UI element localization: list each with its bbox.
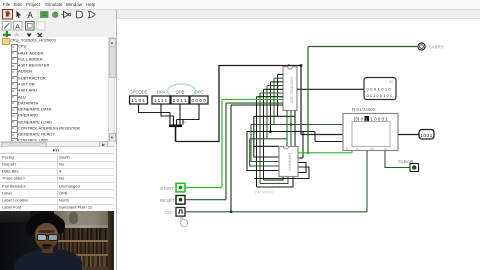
svg-text:0001010: 0001010 — [367, 86, 393, 91]
wire OPCODE pin to splitter — [139, 104, 171, 125]
wire register output — [398, 133, 419, 135]
input pin RESET value 0 — [160, 195, 185, 204]
clock CLK — [165, 207, 186, 216]
wire datapath right hook 3 — [254, 167, 309, 179]
wire datapath right hook 2 — [283, 162, 306, 176]
svg-text:1 0 0 0 1: 1 0 0 0 1 — [371, 116, 389, 121]
bus wire splitter trunk — [175, 127, 177, 142]
wire wrap under datapath 1 — [264, 176, 284, 180]
svg-text:00: 00 — [389, 80, 393, 84]
wire control unit bottom pin 1 to datapath top — [286, 110, 288, 146]
svg-text:1101: 1101 — [131, 98, 146, 104]
wire bundle horizontal b3 — [247, 130, 315, 132]
probe display D1 binary value — [364, 77, 396, 99]
wire bundle horizontal b1 — [254, 115, 295, 117]
mouse cursor ghost — [180, 217, 188, 226]
wire control unit input 1 staircase — [278, 74, 284, 116]
wire riser to datapath input 4 — [247, 131, 279, 170]
wire control unit output to probe display — [297, 88, 364, 90]
svg-text:OPC: OPC — [194, 89, 203, 94]
wire control unit input 7 staircase — [257, 96, 284, 186]
wire riser to datapath input 3 — [250, 138, 279, 165]
svg-text:01100101: 01100101 — [367, 93, 394, 98]
svg-text:(0) 0: (0) 0 — [354, 116, 364, 121]
svg-text:clk: clk — [370, 146, 374, 150]
input pin START value 1 — [160, 183, 185, 192]
wire datapath to register load (green) — [298, 150, 352, 152]
wire bundle horizontal b4 — [250, 137, 287, 139]
wire START net to control unit — [222, 99, 283, 187]
wire OPA pin to splitter — [161, 104, 174, 125]
wire CLK net riser to control unit — [231, 105, 283, 212]
wire control unit input 5 staircase — [264, 89, 284, 180]
svg-text:0011: 0011 — [173, 98, 188, 104]
input pin OPCODE value 1101 — [129, 89, 147, 104]
wire bundle horizontal b5 — [254, 145, 279, 147]
wire CLEAR button to register — [385, 150, 410, 167]
wire bundle horizontal b2 to register — [251, 123, 343, 125]
junction on b3 — [269, 130, 272, 133]
svg-text:CONTROL UNIT: CONTROL UNIT — [290, 77, 294, 105]
register R1 — [343, 113, 398, 150]
junction on CLK wire — [230, 210, 233, 213]
wire wrap under datapath 2 — [260, 176, 288, 183]
svg-text:CARRY: CARRY — [429, 44, 444, 49]
svg-text:RESET: RESET — [160, 198, 175, 203]
wire riser to datapath input 2 — [251, 124, 279, 161]
wire wrap under datapath 3 — [257, 176, 294, 187]
junction at bus corner — [300, 64, 303, 67]
svg-text:R 01/24002: R 01/24002 — [352, 107, 376, 112]
wire OPB pin to splitter — [179, 104, 181, 125]
svg-text:A: A — [28, 11, 34, 20]
wire CARRY net — [308, 46, 417, 152]
wire START pin — [185, 186, 222, 188]
wire datapath right hook 1 — [298, 131, 303, 158]
input pin OPB value 0011 — [171, 89, 189, 104]
wire control unit top pin stub — [288, 64, 290, 66]
splitter S1 4-bit merge — [169, 119, 187, 127]
junction green wire — [307, 151, 310, 154]
subcircuit U2 DATAPATH — [279, 146, 298, 176]
svg-text:clr: clr — [384, 146, 387, 150]
junction on b2 — [290, 123, 293, 126]
wire control unit input 3 staircase — [271, 81, 284, 131]
svg-text:A: A — [15, 24, 20, 31]
svg-text:START: START — [160, 185, 174, 190]
input pin OPC value 0000 — [190, 89, 208, 104]
bus wire riser to register input — [301, 65, 343, 134]
wire control unit bottom pin 3 to datapath top — [294, 110, 296, 146]
wire control unit bottom pin 2 to datapath top — [290, 110, 292, 146]
wire control unit input 2 staircase — [274, 78, 283, 124]
svg-text:4: 4 — [184, 119, 187, 124]
wire control unit input 6 staircase — [260, 93, 283, 184]
output display value 1001 — [419, 129, 434, 139]
svg-text:ld: ld — [346, 146, 349, 150]
svg-text:CLK: CLK — [165, 209, 174, 214]
wire control unit input 4 staircase — [267, 85, 283, 138]
svg-text:DATAPATH: DATAPATH — [288, 152, 292, 171]
wire CLK to register clock — [185, 150, 367, 211]
svg-text:1001: 1001 — [420, 132, 432, 138]
wire OPC pin to splitter — [177, 104, 200, 125]
svg-text:DATAPATH: DATAPATH — [255, 190, 274, 194]
svg-text:1111: 1111 — [154, 98, 168, 104]
bus wire loop to control unit top — [176, 65, 302, 141]
wire RESET pin — [185, 198, 226, 200]
input pin OPA value 1111 — [152, 89, 170, 104]
svg-text:OPA: OPA — [157, 89, 166, 94]
output pin CARRY — [418, 42, 444, 49]
svg-text:OPCODE: OPCODE — [129, 89, 147, 94]
circuit schematic canvas — [116, 18, 480, 270]
wire riser to register pin 2 — [315, 131, 343, 141]
svg-text:OPB: OPB — [176, 89, 185, 94]
annotation oval around OPB label — [168, 84, 196, 98]
svg-text:0000: 0000 — [191, 98, 206, 104]
subcircuit U1 CONTROL UNIT — [283, 66, 297, 110]
wire riser to datapath input 1 — [254, 116, 279, 157]
wire RESET net to control unit — [226, 103, 283, 199]
button CLEAR — [398, 159, 419, 172]
svg-text:in: in — [356, 146, 359, 150]
